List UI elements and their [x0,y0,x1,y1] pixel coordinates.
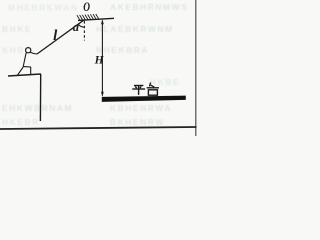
svg-text:EHKWBRNAM: EHKWBRNAM [2,103,73,113]
svg-text:HLAEBKRWNM: HLAEBKRWNM [96,24,174,34]
person: thigh [23,66,31,68]
svg-text:MHEBRKWAN: MHEBRKWAN [8,3,79,13]
svg-text:KHB: KHB [2,45,25,55]
person: arm [30,52,37,54]
svg-text:HKEBR: HKEBR [2,117,40,127]
label 平台 : 台 [147,83,159,96]
svg-text:H: H [94,54,105,66]
angle arc a [78,24,84,27]
svg-text:a: a [73,20,79,34]
H dimension line [101,21,103,96]
cliff top [8,74,41,76]
svg-text:HKBE: HKBE [150,77,180,87]
cliff edge [39,74,41,121]
ceiling hatching [77,14,99,20]
ceiling line [78,18,114,20]
svg-text:KBHENRWA: KBHENRWA [110,103,172,113]
H bottom arrow [101,92,104,97]
H top arrow [101,19,104,24]
person: shin [30,67,32,75]
svg-text:BKHENRW: BKHENRW [110,117,165,127]
svg-text:NHEKBRA: NHEKBRA [96,45,149,55]
person: back leg [17,67,23,76]
svg-text:AKEBHRNMWS: AKEBHRNMWS [110,2,188,12]
rope l [37,20,84,54]
svg-text:BHKE: BHKE [2,24,32,34]
dashed vertical from O [83,21,85,41]
person: torso [23,53,26,67]
platform bar [102,96,186,102]
label 平台 : 平 [132,86,145,95]
person: head [26,48,31,53]
svg-text:O: O [83,1,90,15]
